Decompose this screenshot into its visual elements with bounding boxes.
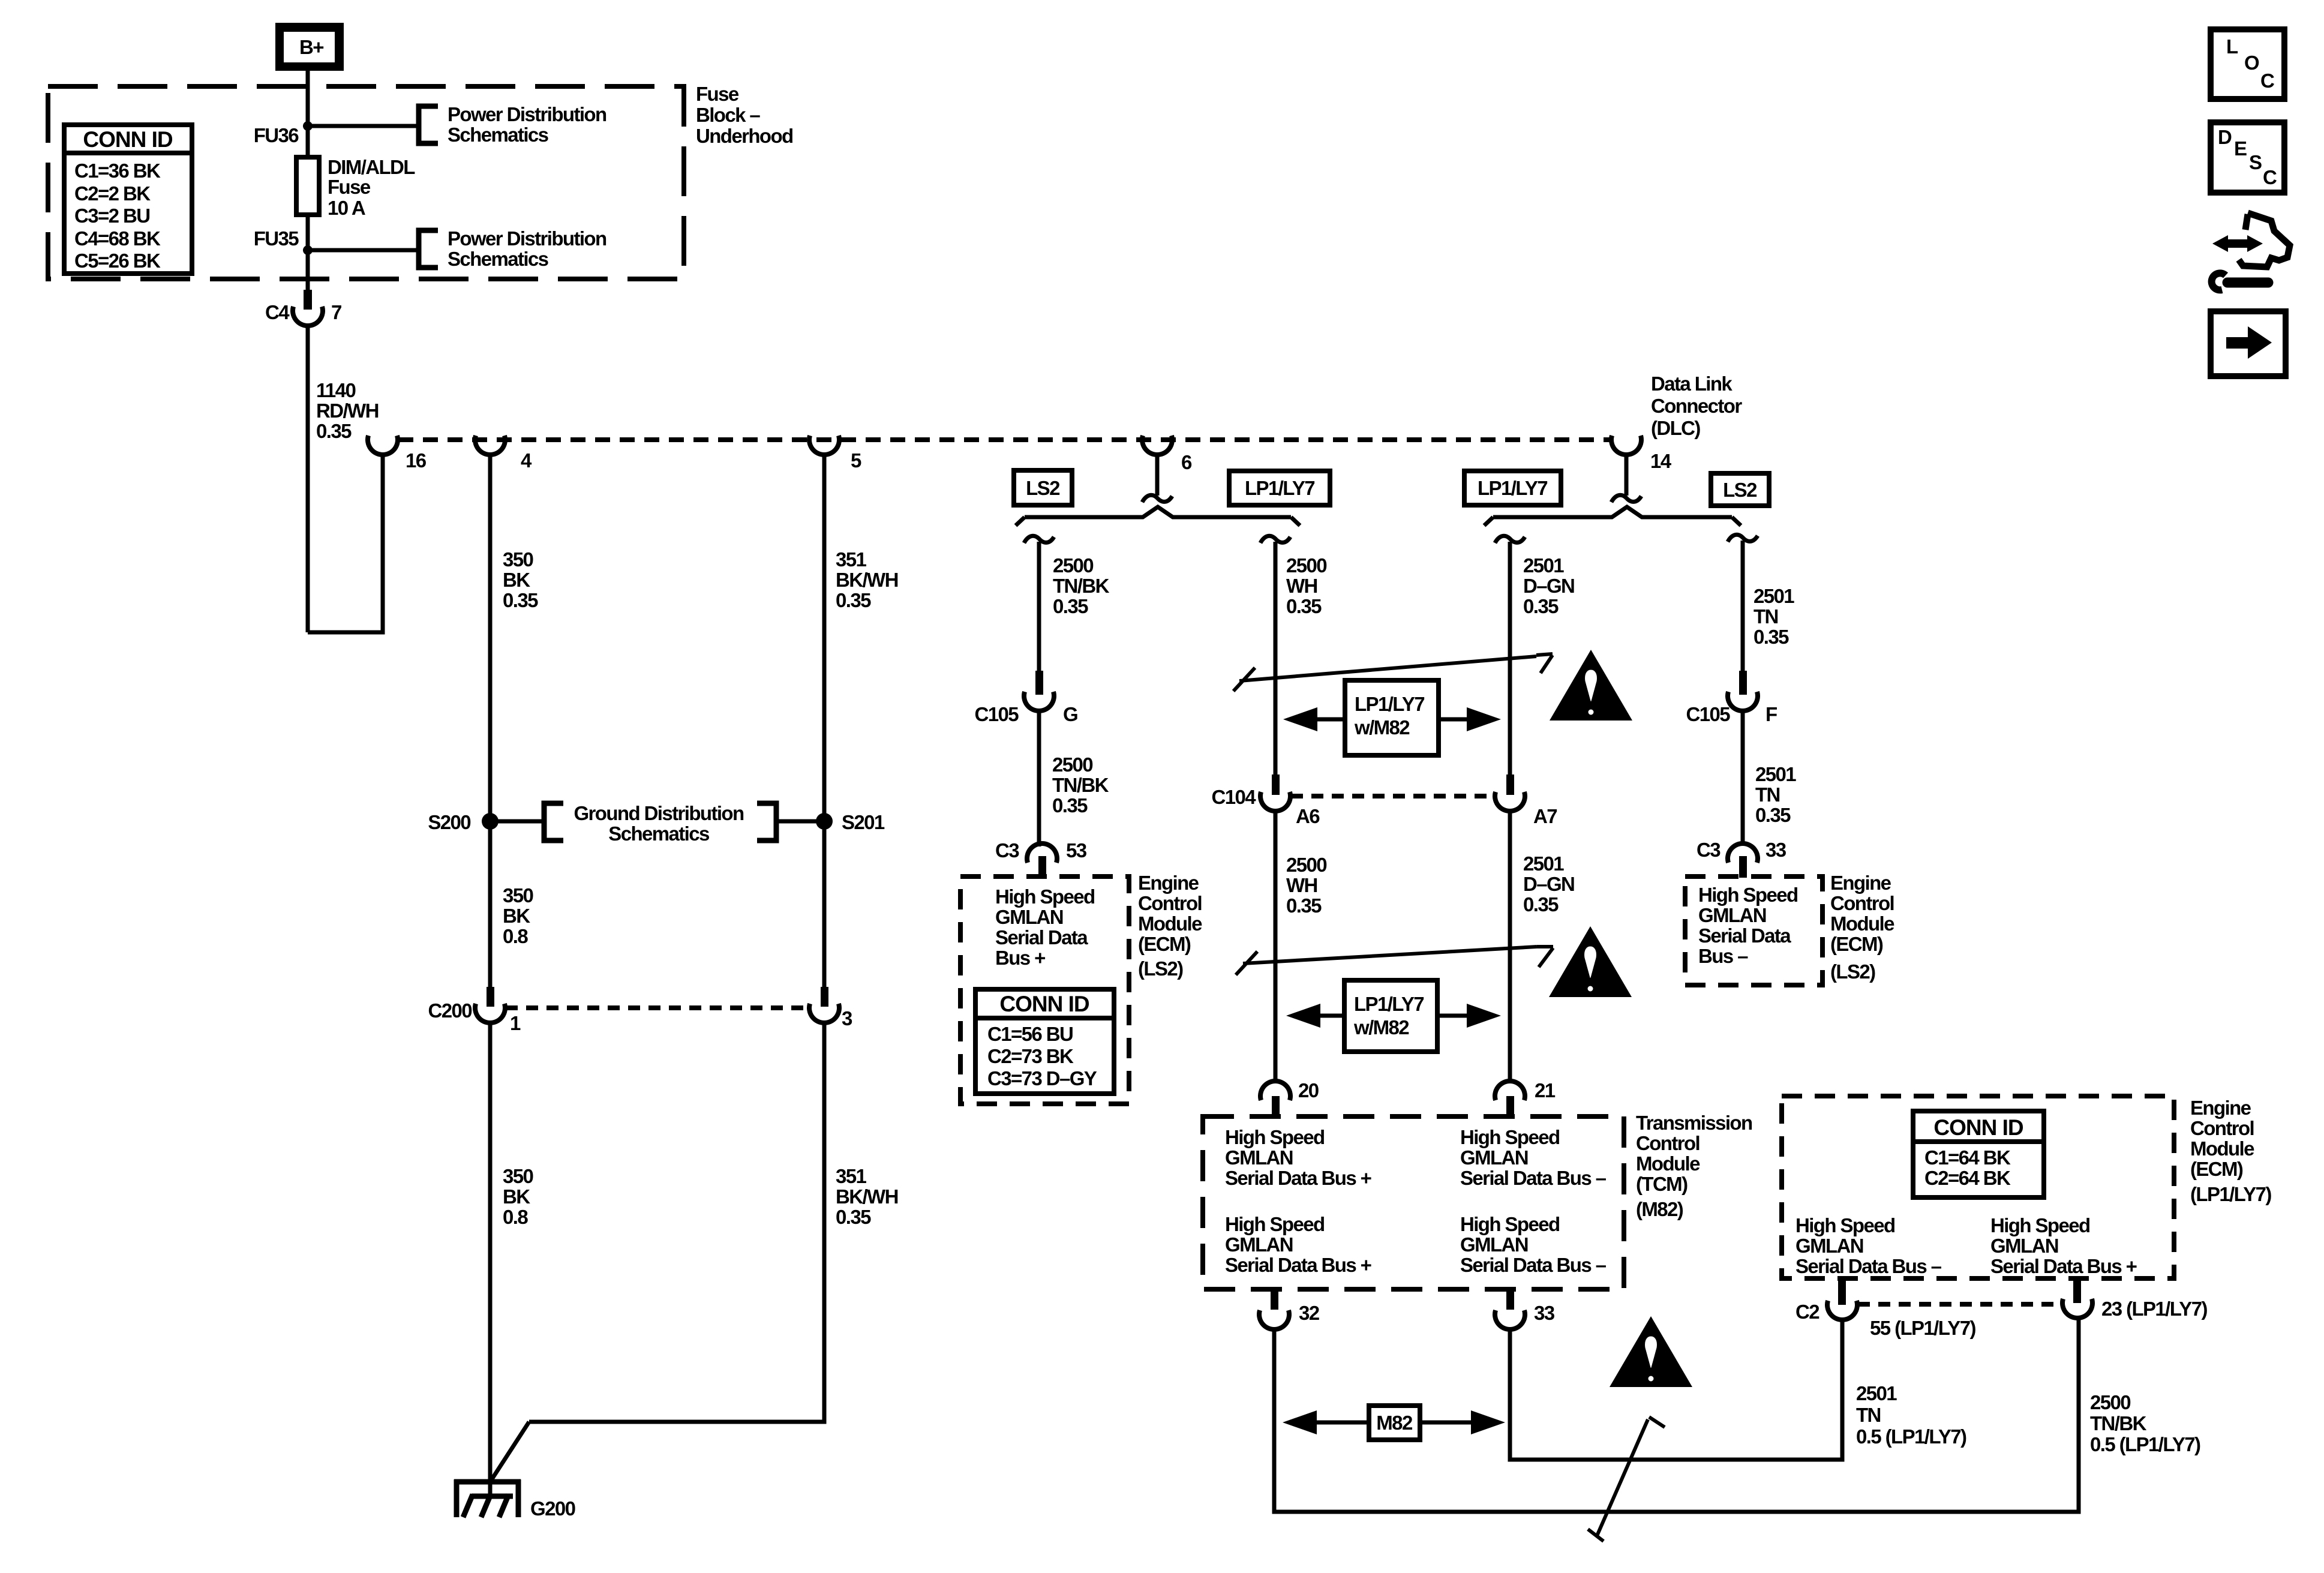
- svg-text:Connector: Connector: [1651, 395, 1742, 417]
- wire 2500 TN/BK to C105: [1037, 542, 1041, 671]
- svg-text:DIM/ALDL: DIM/ALDL: [328, 156, 415, 178]
- svg-text:BK/WH: BK/WH: [836, 569, 898, 591]
- warning symbol middle: [1549, 926, 1632, 997]
- svg-text:Serial Data: Serial Data: [1698, 924, 1791, 947]
- branch start LP1/LY7 bus +: [1260, 536, 1290, 543]
- label Fuse Block Underhood: [696, 83, 793, 147]
- svg-text:O: O: [2244, 52, 2259, 74]
- svg-text:CONN ID: CONN ID: [1933, 1115, 2023, 1140]
- svg-text:C4: C4: [265, 301, 290, 323]
- svg-text:Serial Data Bus +: Serial Data Bus +: [1225, 1254, 1371, 1276]
- svg-text:C1=64 BK: C1=64 BK: [1924, 1146, 2011, 1169]
- harness label LP1/LY7 pin14: [1464, 471, 1561, 505]
- svg-text:Serial Data Bus –: Serial Data Bus –: [1460, 1254, 1607, 1276]
- svg-text:C2=73 BK: C2=73 BK: [987, 1045, 1074, 1067]
- branch start LS2 bus +: [1024, 536, 1054, 543]
- ground G200: [454, 1479, 521, 1517]
- svg-text:Module: Module: [1636, 1152, 1700, 1175]
- svg-text:GMLAN: GMLAN: [1225, 1146, 1293, 1169]
- wire fuse to FU35: [306, 215, 310, 250]
- svg-text:2500: 2500: [1053, 554, 1093, 577]
- wire 2501 D-GN to C104: [1508, 542, 1512, 775]
- svg-text:S200: S200: [428, 811, 470, 833]
- svg-text:BK/WH: BK/WH: [836, 1185, 898, 1208]
- svg-text:GMLAN: GMLAN: [1460, 1146, 1528, 1169]
- wire FU35 to power distribution reference: [308, 248, 419, 253]
- warning pointer lower: [1588, 1417, 1665, 1541]
- svg-text:C2=64 BK: C2=64 BK: [1924, 1167, 2011, 1189]
- svg-text:Serial Data Bus –: Serial Data Bus –: [1460, 1167, 1607, 1189]
- DLC cavity 5: [809, 436, 839, 455]
- svg-text:C1=56 BU: C1=56 BU: [987, 1023, 1073, 1045]
- svg-text:(ECM): (ECM): [1138, 933, 1191, 955]
- svg-text:B+: B+: [299, 36, 323, 58]
- svg-text:LP1/LY7: LP1/LY7: [1245, 477, 1314, 499]
- svg-text:0.8: 0.8: [503, 1206, 528, 1228]
- icon vehicle service arrows: [2212, 213, 2290, 290]
- svg-text:350: 350: [503, 884, 533, 906]
- svg-text:Power Distribution: Power Distribution: [448, 227, 606, 250]
- svg-text:(LP1/LY7): (LP1/LY7): [2190, 1183, 2271, 1205]
- svg-text:1: 1: [510, 1012, 521, 1034]
- svg-text:0.35: 0.35: [503, 589, 538, 611]
- svg-text:Power Distribution: Power Distribution: [448, 103, 606, 125]
- svg-text:6: 6: [1181, 451, 1192, 473]
- connector C200 dashed face: [506, 1005, 809, 1010]
- splice S201: [816, 813, 833, 830]
- svg-text:GMLAN: GMLAN: [1795, 1235, 1863, 1257]
- svg-text:0.35: 0.35: [316, 420, 352, 442]
- svg-text:TN/BK: TN/BK: [2090, 1412, 2147, 1434]
- svg-text:High Speed: High Speed: [995, 885, 1095, 908]
- harness label LS2 left: [1014, 470, 1072, 505]
- svg-text:0.35: 0.35: [1755, 804, 1791, 826]
- svg-text:2501: 2501: [1755, 763, 1796, 785]
- svg-text:G: G: [1063, 703, 1077, 725]
- connector C104 pin A6: [1212, 775, 1320, 827]
- svg-text:Fuse: Fuse: [696, 83, 739, 105]
- svg-text:Serial Data Bus +: Serial Data Bus +: [1225, 1167, 1371, 1189]
- svg-text:A7: A7: [1533, 805, 1557, 827]
- connector C200 pin 1: [428, 987, 521, 1034]
- wire 351 BK/WH C200 pin3 to ground: [529, 1022, 824, 1422]
- DLC cavity 14: [1611, 436, 1641, 455]
- svg-text:33: 33: [1765, 839, 1786, 861]
- svg-text:C3: C3: [1697, 839, 1721, 861]
- connector C4 pin 7: [265, 290, 341, 326]
- wire FU35 to connector C4: [306, 250, 310, 290]
- svg-text:M82: M82: [1376, 1412, 1413, 1434]
- wire 2501 TN C105 to ECM: [1741, 710, 1745, 843]
- svg-text:C2=2 BK: C2=2 BK: [74, 182, 151, 205]
- icon locator LOC: [2211, 29, 2284, 99]
- connector C3 pin 33 ECM LS2: [1697, 839, 1786, 878]
- svg-text:0.35: 0.35: [1523, 595, 1559, 617]
- icon description DESC: [2211, 122, 2284, 193]
- wire 2500 WH C104 to TCM pin 20: [1274, 809, 1278, 1082]
- warning symbol lower: [1610, 1316, 1692, 1387]
- svg-text:Serial Data Bus +: Serial Data Bus +: [1990, 1255, 2137, 1277]
- svg-text:TN: TN: [1753, 605, 1778, 628]
- svg-text:C105: C105: [1686, 703, 1731, 725]
- DLC cavity 4: [475, 436, 505, 455]
- battery feed terminal B+: [275, 23, 344, 71]
- svg-text:Engine: Engine: [1830, 872, 1891, 894]
- connector C105 pin F: [1686, 671, 1777, 725]
- wire DLC pin 14 stub: [1625, 455, 1629, 496]
- svg-text:C105: C105: [975, 703, 1019, 725]
- svg-text:C4=68 BK: C4=68 BK: [74, 227, 161, 250]
- svg-text:Underhood: Underhood: [696, 125, 793, 147]
- svg-text:TN: TN: [1856, 1404, 1881, 1426]
- svg-text:Block –: Block –: [696, 104, 760, 126]
- svg-text:S: S: [2249, 151, 2262, 173]
- svg-text:0.35: 0.35: [1286, 894, 1322, 917]
- svg-text:0.8: 0.8: [503, 925, 528, 947]
- CONN ID table ECM LS2: [975, 989, 1114, 1094]
- svg-text:High Speed: High Speed: [1225, 1213, 1325, 1235]
- svg-text:Data Link: Data Link: [1651, 373, 1733, 395]
- svg-text:A6: A6: [1296, 805, 1320, 827]
- svg-text:TN: TN: [1755, 784, 1780, 806]
- svg-text:w/M82: w/M82: [1353, 1016, 1409, 1038]
- svg-text:Transmission: Transmission: [1636, 1112, 1752, 1134]
- svg-text:0.5 (LP1/LY7): 0.5 (LP1/LY7): [1856, 1425, 1966, 1448]
- svg-text:FU36: FU36: [254, 124, 299, 146]
- svg-text:LS2: LS2: [1026, 477, 1060, 499]
- svg-text:Serial Data: Serial Data: [995, 926, 1088, 948]
- wire FU36 to power distribution reference: [308, 124, 419, 128]
- svg-text:High Speed: High Speed: [1990, 1214, 2090, 1236]
- svg-text:C3: C3: [995, 839, 1019, 861]
- svg-text:WH: WH: [1286, 575, 1317, 597]
- svg-text:Serial Data Bus –: Serial Data Bus –: [1795, 1255, 1942, 1277]
- svg-text:55 (LP1/LY7): 55 (LP1/LY7): [1870, 1317, 1975, 1339]
- svg-text:4: 4: [521, 449, 532, 472]
- svg-text:E: E: [2234, 137, 2247, 160]
- wire 350 BK 0.8 C200 to G200: [488, 1022, 493, 1495]
- svg-text:10 A: 10 A: [328, 197, 365, 219]
- svg-text:BK: BK: [503, 569, 530, 591]
- wire S200 to ground distribution reference: [490, 819, 544, 824]
- svg-text:Fuse: Fuse: [328, 176, 371, 198]
- svg-text:Schematics: Schematics: [448, 124, 548, 146]
- svg-text:GMLAN: GMLAN: [1990, 1235, 2058, 1257]
- svg-text:Control: Control: [1830, 892, 1894, 914]
- wire 2500 WH to C104: [1274, 542, 1278, 775]
- node FU36: [303, 121, 313, 131]
- svg-text:GMLAN: GMLAN: [1698, 904, 1766, 926]
- svg-text:LS2: LS2: [1723, 479, 1757, 501]
- harness break pin 6: [1142, 495, 1172, 502]
- connector C3 pin 53 ECM LS2: [995, 839, 1087, 878]
- harness label LS2 right: [1711, 473, 1769, 506]
- wire 351 BK/WH DLC pin5 to S201: [822, 455, 827, 987]
- svg-text:2500: 2500: [1286, 854, 1326, 876]
- svg-text:C3=73 D–GY: C3=73 D–GY: [987, 1067, 1097, 1089]
- harness split bracket pin 6: [1016, 507, 1300, 526]
- wire B+ to fuse block: [306, 71, 310, 126]
- svg-text:D–GN: D–GN: [1523, 873, 1574, 895]
- svg-text:C3=2 BU: C3=2 BU: [74, 205, 149, 227]
- svg-text:32: 32: [1299, 1302, 1320, 1324]
- svg-text:F: F: [1765, 703, 1777, 725]
- CONN ID table ECM LP1/LY7: [1913, 1111, 2044, 1197]
- svg-text:Control: Control: [1138, 892, 1202, 914]
- svg-text:2501: 2501: [1523, 852, 1564, 875]
- svg-text:Control: Control: [2190, 1117, 2254, 1139]
- wire label 2500 TN/BK 0.5: [2090, 1391, 2200, 1455]
- reference bracket ground distribution left: [544, 803, 563, 840]
- svg-text:21: 21: [1535, 1079, 1556, 1101]
- svg-text:C200: C200: [428, 999, 472, 1022]
- svg-text:Ground Distribution: Ground Distribution: [574, 802, 743, 824]
- svg-text:350: 350: [503, 548, 533, 571]
- svg-text:C2: C2: [1795, 1301, 1819, 1323]
- svg-text:1140: 1140: [316, 379, 355, 401]
- svg-text:0.35: 0.35: [1523, 893, 1559, 915]
- engine control module LS2 right dashed box: [1685, 876, 1822, 985]
- wire 2501 TN to C105 F: [1741, 541, 1745, 671]
- option box LP1/LY7 w/M82 lower: [1286, 980, 1501, 1052]
- svg-text:2501: 2501: [1856, 1382, 1897, 1404]
- svg-text:14: 14: [1650, 450, 1672, 472]
- svg-text:LP1/LY7: LP1/LY7: [1478, 477, 1547, 499]
- connector ECM pin 23: [2062, 1278, 2207, 1320]
- svg-text:0.35: 0.35: [1286, 595, 1322, 617]
- branch start LP1/LY7 bus -: [1495, 536, 1525, 543]
- DLC cavity 6: [1142, 436, 1172, 455]
- svg-text:RD/WH: RD/WH: [316, 400, 379, 422]
- svg-text:0.35: 0.35: [836, 589, 871, 611]
- svg-text:w/M82: w/M82: [1354, 716, 1410, 739]
- wire DLC pin 6 stub: [1155, 455, 1160, 496]
- svg-text:0.35: 0.35: [1052, 794, 1088, 816]
- svg-text:2500: 2500: [1052, 754, 1092, 776]
- wire label 2501 TN 0.5: [1856, 1382, 1966, 1448]
- svg-text:Bus +: Bus +: [995, 947, 1045, 969]
- harness break pin 14: [1611, 495, 1641, 502]
- svg-text:Bus –: Bus –: [1698, 945, 1748, 967]
- svg-text:GMLAN: GMLAN: [1225, 1233, 1293, 1256]
- CONN ID table fuse block: [64, 125, 192, 274]
- connector C1/C2 dashed face: [1858, 1302, 2062, 1307]
- svg-text:WH: WH: [1286, 874, 1317, 896]
- warning pointer upper: [1233, 654, 1553, 691]
- svg-text:(ECM): (ECM): [2190, 1158, 2243, 1180]
- connector TCM pin 21: [1495, 1079, 1556, 1115]
- svg-text:LP1/LY7: LP1/LY7: [1355, 693, 1424, 715]
- fuse DIM/ALDL 10A: [296, 157, 319, 215]
- svg-text:2500: 2500: [2090, 1391, 2130, 1413]
- svg-text:0.35: 0.35: [1053, 595, 1088, 617]
- svg-text:3: 3: [842, 1007, 852, 1029]
- svg-text:L: L: [2226, 35, 2238, 58]
- svg-text:C5=26 BK: C5=26 BK: [74, 250, 161, 272]
- fuse block underhood dashed box: [48, 86, 684, 279]
- svg-text:350: 350: [503, 1165, 533, 1187]
- svg-text:Control: Control: [1636, 1132, 1700, 1154]
- svg-text:(ECM): (ECM): [1830, 933, 1883, 955]
- wire bend to DLC pin 16: [308, 455, 383, 632]
- wire 1140 RD/WH from C4: [306, 326, 310, 632]
- svg-text:(LS2): (LS2): [1138, 957, 1183, 980]
- svg-text:G200: G200: [530, 1497, 575, 1520]
- warning pointer middle: [1236, 947, 1553, 975]
- option box LP1/LY7 w/M82 upper: [1283, 680, 1501, 755]
- svg-text:High Speed: High Speed: [1225, 1126, 1325, 1148]
- svg-text:7: 7: [331, 301, 341, 323]
- icon forward arrow: [2211, 311, 2286, 376]
- reference bracket ground distribution right: [757, 803, 776, 840]
- svg-text:(LS2): (LS2): [1830, 960, 1875, 983]
- connector C104 pin A7: [1495, 775, 1557, 827]
- wire TCM pin32 to ECM pin23: [1274, 1318, 2079, 1512]
- svg-text:CONN ID: CONN ID: [83, 127, 173, 152]
- svg-text:33: 33: [1534, 1302, 1555, 1324]
- branch start LS2 bus -: [1728, 535, 1758, 542]
- reference bracket power distribution lower: [419, 230, 438, 268]
- svg-text:Schematics: Schematics: [608, 822, 709, 845]
- engine control module LS2 left dashed box: [960, 876, 1129, 1104]
- connector TCM pin 20: [1260, 1079, 1319, 1115]
- svg-text:TN/BK: TN/BK: [1053, 575, 1110, 597]
- svg-text:Module: Module: [1830, 912, 1894, 935]
- transmission control module dashed box: [1203, 1116, 1624, 1289]
- svg-text:High Speed: High Speed: [1795, 1214, 1895, 1236]
- node FU35: [303, 245, 313, 255]
- svg-text:GMLAN: GMLAN: [995, 906, 1063, 928]
- svg-text:Engine: Engine: [2190, 1097, 2251, 1119]
- connector C104 dashed face: [1291, 794, 1494, 798]
- engine control module LP1/LY7 dashed box: [1782, 1096, 2174, 1278]
- connector C200 pin 3: [809, 987, 852, 1029]
- svg-text:C1=36 BK: C1=36 BK: [74, 160, 161, 182]
- svg-text:C: C: [2263, 166, 2277, 188]
- connector TCM pin 33: [1495, 1289, 1555, 1329]
- svg-text:20: 20: [1298, 1079, 1319, 1101]
- svg-text:Engine: Engine: [1138, 872, 1199, 894]
- connector TCM pin 32: [1259, 1289, 1320, 1329]
- svg-text:High Speed: High Speed: [1460, 1213, 1560, 1235]
- svg-text:LP1/LY7: LP1/LY7: [1354, 993, 1424, 1015]
- svg-text:TN/BK: TN/BK: [1052, 774, 1109, 796]
- svg-text:FU35: FU35: [254, 227, 299, 250]
- wire 350 BK DLC pin4 to S200: [488, 455, 493, 821]
- wire 350 BK 0.8 S200 to C200: [488, 821, 493, 987]
- svg-text:0.35: 0.35: [1753, 626, 1789, 648]
- svg-text:Module: Module: [2190, 1137, 2254, 1160]
- svg-text:5: 5: [851, 449, 861, 472]
- svg-text:Module: Module: [1138, 912, 1202, 935]
- svg-text:2501: 2501: [1523, 554, 1564, 577]
- harness label LP1/LY7 pin6: [1229, 471, 1330, 505]
- connector ECM C2: [1795, 1278, 1857, 1323]
- svg-text:23 (LP1/LY7): 23 (LP1/LY7): [2101, 1298, 2207, 1320]
- wire 2501 D-GN C104 to TCM pin 21: [1508, 809, 1512, 1082]
- svg-text:BK: BK: [503, 905, 530, 927]
- svg-text:Schematics: Schematics: [448, 248, 548, 270]
- wire 2500 TN/BK C105 to ECM: [1037, 710, 1041, 846]
- svg-text:C: C: [2260, 70, 2274, 92]
- wire TCM pin33 to ECM C2: [1510, 1319, 1842, 1460]
- harness split bracket pin 14: [1484, 507, 1741, 526]
- svg-text:D–GN: D–GN: [1523, 575, 1574, 597]
- svg-text:351: 351: [836, 1165, 867, 1187]
- svg-text:(TCM): (TCM): [1636, 1173, 1688, 1195]
- svg-text:0.35: 0.35: [836, 1206, 871, 1228]
- svg-text:High Speed: High Speed: [1460, 1126, 1560, 1148]
- DLC cavity 16: [368, 436, 398, 455]
- wire reference to S201: [776, 819, 824, 824]
- wire diagonal into ground: [491, 1422, 529, 1480]
- wire FU36 to fuse: [306, 126, 310, 157]
- reference bracket power distribution upper: [419, 106, 438, 143]
- svg-text:C104: C104: [1212, 786, 1257, 808]
- svg-text:BK: BK: [503, 1185, 530, 1208]
- svg-text:D: D: [2218, 126, 2232, 148]
- svg-text:CONN ID: CONN ID: [999, 992, 1089, 1016]
- svg-text:2501: 2501: [1753, 585, 1794, 607]
- svg-text:2500: 2500: [1286, 554, 1326, 577]
- svg-text:(M82): (M82): [1636, 1198, 1683, 1220]
- option arrows M82: [1283, 1406, 1505, 1440]
- splice S200: [482, 813, 499, 830]
- svg-text:351: 351: [836, 548, 867, 571]
- svg-text:High Speed: High Speed: [1698, 884, 1798, 906]
- svg-text:GMLAN: GMLAN: [1460, 1233, 1528, 1256]
- svg-text:16: 16: [406, 449, 427, 472]
- warning symbol upper: [1550, 650, 1632, 721]
- data link connector DLC dashed face: [398, 437, 1611, 442]
- svg-text:53: 53: [1066, 839, 1087, 861]
- connector C105 pin G: [975, 671, 1078, 725]
- svg-text:S201: S201: [842, 811, 885, 833]
- svg-text:(DLC): (DLC): [1651, 417, 1700, 439]
- svg-text:0.5 (LP1/LY7): 0.5 (LP1/LY7): [2090, 1433, 2200, 1455]
